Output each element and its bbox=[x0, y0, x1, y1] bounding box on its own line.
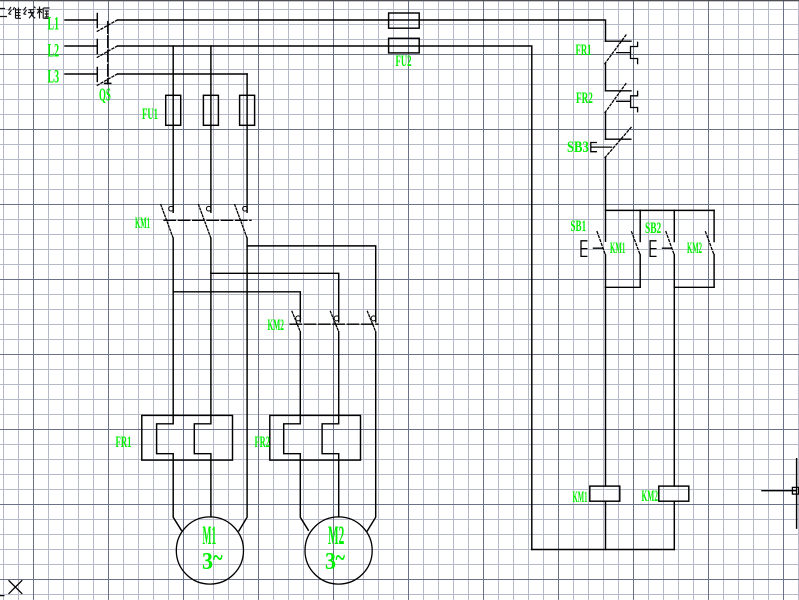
svg-text:3: 3 bbox=[202, 549, 213, 575]
thermal overload relay FR2 heater box bbox=[270, 415, 361, 460]
wire branch phase A to KM2 pole 1 bbox=[173, 292, 300, 322]
wire SB1 to node bbox=[605, 255, 607, 288]
crosshair marker bottom left bbox=[0, 581, 22, 596]
svg-text:QS: QS bbox=[99, 85, 111, 105]
svg-text:3: 3 bbox=[325, 549, 336, 575]
start pushbutton SB1 actuator bbox=[581, 241, 603, 257]
svg-text:KM2: KM2 bbox=[268, 317, 285, 334]
svg-text:L3: L3 bbox=[48, 67, 60, 88]
thermal overload relay FR1 NC contact blade bbox=[605, 34, 627, 64]
wire FR2 to SB3 bbox=[605, 113, 607, 140]
svg-text:FR1: FR1 bbox=[116, 434, 132, 451]
start pushbutton SB2 bbox=[673, 210, 675, 287]
svg-text:FR2: FR2 bbox=[576, 90, 593, 107]
thermal overload relay FR1 NC contact release hook bbox=[617, 42, 638, 63]
svg-text:FR1: FR1 bbox=[576, 42, 592, 59]
svg-text:FU1: FU1 bbox=[142, 106, 158, 123]
stop pushbutton SB3 blade bbox=[605, 126, 633, 158]
thermal overload relay FR2 NC contact blade bbox=[605, 83, 627, 113]
disconnect switch QS pole 1 blade bbox=[97, 20, 117, 31]
wire FR1 to FR2 bbox=[605, 64, 607, 91]
fuse FU1 pole 1 bbox=[166, 95, 181, 125]
svg-text:~: ~ bbox=[213, 543, 223, 572]
wire control return rail bbox=[532, 549, 675, 551]
svg-text:KM2: KM2 bbox=[687, 240, 702, 257]
svg-text:KM2: KM2 bbox=[642, 488, 659, 505]
contactor coil KM1 bbox=[590, 486, 620, 501]
wire KM2 pole 2 to FR2 bbox=[338, 332, 340, 416]
thermal overload relay FR1 heater element phase B and wire to motor M1 centre lead bbox=[194, 415, 211, 517]
svg-text:L1: L1 bbox=[48, 14, 60, 35]
fuse FU1 pole 2 bbox=[203, 95, 218, 125]
thermal overload relay FR2 heater element phase B and wire to motor M2 centre lead bbox=[322, 415, 339, 517]
wire branch phase C to KM2 pole 3 bbox=[247, 246, 376, 322]
disconnect switch QS pole 2 contact bar bbox=[96, 40, 98, 54]
svg-text:KM1: KM1 bbox=[573, 489, 588, 506]
wire coil KM2 to return rail bbox=[673, 501, 675, 549]
start pushbutton SB1 blade bbox=[597, 232, 605, 255]
wire KM1 branch bottom rail bbox=[606, 286, 641, 288]
stop pushbutton SB3 actuator bbox=[591, 143, 612, 152]
wire L3 bus bbox=[118, 73, 247, 75]
contactor KM1 auxiliary contact blade (dashed) bbox=[632, 232, 640, 255]
svg-text:~: ~ bbox=[336, 543, 346, 572]
wire KM2 branch bottom rail bbox=[674, 286, 714, 288]
disconnect switch QS pole 2 blade bbox=[97, 46, 117, 57]
thermal overload relay FR1 NC contact terminal tick bbox=[606, 40, 632, 42]
thermal overload relay FR2 NC contact release hook bbox=[617, 91, 638, 111]
start pushbutton SB2 blade (dashed) bbox=[666, 232, 674, 255]
wire phase A feeder bbox=[172, 46, 174, 212]
disconnect switch QS linkage (dashed) bbox=[105, 22, 111, 84]
contactor KM2 mechanical linkage (dashed) bbox=[290, 323, 378, 325]
wire L1 bus to control circuit with corner down at right bbox=[118, 20, 606, 41]
contactor KM1 main contact pole 3 bbox=[243, 206, 248, 211]
stop pushbutton SB3 terminal tick bbox=[606, 138, 631, 140]
motor M2 circle bbox=[305, 517, 372, 584]
contactor KM1 main contact pole 1 bbox=[169, 206, 174, 211]
wire KM2 pole 1 to FR2 bbox=[299, 332, 301, 416]
contactor KM2 main contact pole 3 bbox=[371, 316, 376, 321]
thermal overload relay FR2 NC contact terminal tick bbox=[606, 90, 632, 92]
wire control top rail bbox=[606, 209, 715, 211]
motor M1 circle bbox=[176, 517, 243, 584]
wire KM2 pole 3 down to motor M2 right lead bbox=[367, 332, 375, 531]
disconnect switch QS pole 3 contact bar bbox=[96, 68, 98, 82]
contactor KM1 mechanical linkage (dashed) bbox=[164, 219, 251, 221]
fuse FU1 pole 3 bbox=[240, 95, 255, 125]
contactor KM1 auxiliary NO contact bbox=[639, 210, 641, 287]
wire node to coil KM1 bbox=[605, 287, 607, 486]
wire KM1 pole 3 down to motor M1 right lead bbox=[239, 238, 247, 531]
thermal overload relay FR1 heater box bbox=[142, 415, 233, 460]
thermal overload relay FR2 heater element phase A and wire to motor M2 left lead bbox=[284, 415, 309, 530]
contactor KM1 main contact pole 2 bbox=[206, 206, 211, 211]
contactor KM2 main contact pole 1 bbox=[296, 316, 301, 321]
wire coil KM1 to return rail bbox=[605, 501, 607, 549]
svg-text:KM1: KM1 bbox=[610, 240, 625, 257]
wire KM1 pole 1 to FR1 bbox=[172, 238, 174, 415]
disconnect switch QS pole 1 contact bar bbox=[96, 14, 98, 28]
thermal overload relay FR1 heater element phase A and wire to motor M1 left lead bbox=[157, 415, 182, 530]
wire L3 input bbox=[65, 73, 97, 75]
wire KM1 pole 2 to FR1 bbox=[210, 238, 212, 415]
contactor KM2 auxiliary contact blade (dashed) bbox=[706, 232, 714, 255]
wire phase C feeder bbox=[246, 74, 248, 212]
start pushbutton SB2 actuator bbox=[650, 241, 671, 257]
wire node to coil KM2 bbox=[673, 287, 675, 486]
wire L2 input bbox=[65, 45, 97, 47]
svg-text:SB2: SB2 bbox=[645, 220, 661, 237]
wire L2 bus turning down to control circuit return rail bbox=[118, 46, 532, 550]
svg-text:KM1: KM1 bbox=[135, 215, 150, 232]
contactor KM2 main contact pole 2 bbox=[334, 316, 339, 321]
terminal box cut off at right edge bbox=[792, 487, 798, 494]
svg-text:SB1: SB1 bbox=[571, 218, 587, 235]
fuse FU2 element 2 bbox=[389, 38, 420, 53]
contactor KM2 auxiliary NO contact bbox=[713, 210, 715, 287]
viewport label "二维线框" (2D wireframe) bbox=[0, 7, 50, 19]
wire stub cut off at right edge bbox=[762, 459, 797, 528]
disconnect switch QS pole 3 blade bbox=[97, 74, 117, 85]
wire branch phase B to KM2 pole 2 bbox=[211, 273, 339, 322]
svg-text:FU2: FU2 bbox=[396, 53, 412, 70]
fuse FU2 element 1 bbox=[389, 13, 420, 28]
svg-text:L2: L2 bbox=[48, 41, 60, 62]
svg-text:FR2: FR2 bbox=[255, 434, 270, 451]
svg-text:SB3: SB3 bbox=[567, 139, 589, 156]
wire L1 input bbox=[65, 19, 97, 21]
wire SB3 down through branch node bbox=[605, 158, 607, 242]
contactor coil KM2 bbox=[659, 486, 689, 501]
wire phase B feeder bbox=[210, 46, 212, 212]
